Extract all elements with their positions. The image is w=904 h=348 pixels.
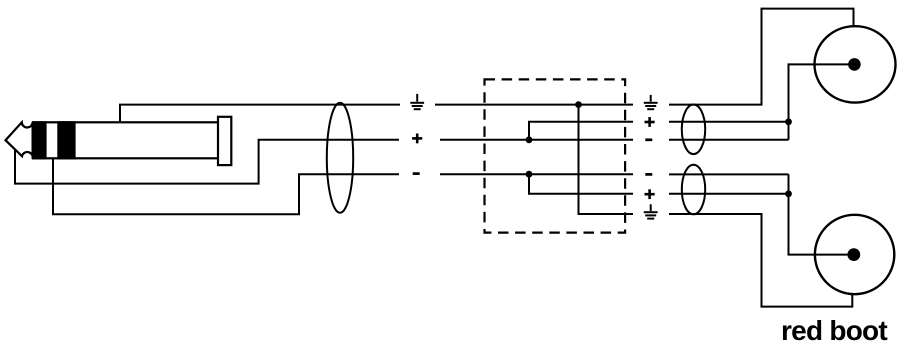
junction box (dashed) bbox=[485, 79, 626, 232]
plus symbol at RCA1 plus lead bbox=[645, 117, 655, 127]
junction dot: tip to RCA1 plus bbox=[526, 136, 533, 143]
wire: tip + into junction box (continues to RCA1 minus lead) bbox=[440, 139, 633, 141]
cable sheath ellipse (RCA2 lead) bbox=[682, 165, 705, 215]
wire: RCA1 plus lead to center pin node bbox=[669, 121, 789, 123]
wire: ground bus into junction box bbox=[435, 104, 633, 106]
junction dot: RCA1 plus node bbox=[785, 118, 792, 125]
wire: ground to RCA2 shell under the bottom bbox=[669, 214, 852, 307]
RCA connector 1 center pin dot bbox=[848, 58, 861, 71]
junction dot: ring to RCA2 plus bbox=[526, 171, 533, 178]
wire: RCA2 plus lead to center pin node bbox=[669, 193, 789, 195]
wire: ground to RCA1 shell over the top bbox=[669, 9, 854, 105]
cable sheath ellipse (main cable) bbox=[327, 103, 353, 213]
RCA connector 1 shell (circle) bbox=[815, 26, 896, 102]
cable sheath ellipse (RCA1 lead) bbox=[682, 105, 705, 155]
wire: ring (-) from jack barrel down, under jack, right, up and right bbox=[53, 150, 399, 214]
wire: RCA1 center pin connection bbox=[789, 64, 851, 139]
label: red boot bbox=[781, 315, 887, 347]
RCA connector 2 shell (circle) bbox=[815, 215, 894, 294]
jack insulator band 1 bbox=[33, 121, 47, 159]
RCA connector 2 center pin dot bbox=[847, 248, 860, 261]
plus symbol at jack tip wire bbox=[412, 134, 422, 144]
wire: RCA1 minus lead to center pin node bbox=[669, 139, 789, 141]
junction dot: ground split bbox=[575, 101, 582, 108]
plus symbol at RCA2 plus lead bbox=[645, 189, 655, 199]
wire: RCA2 center pin connection bbox=[789, 174, 851, 254]
ground symbol at RCA2 lead bbox=[644, 204, 658, 218]
jack plug J1 barrel (sleeve) bbox=[33, 122, 219, 158]
ground symbol at jack sleeve wire bbox=[410, 94, 424, 109]
minus symbol at RCA2 minus lead bbox=[645, 173, 652, 176]
minus symbol at RCA1 minus lead bbox=[645, 138, 652, 141]
jack body cap bbox=[218, 117, 231, 165]
minus symbol at jack ring wire bbox=[413, 172, 420, 175]
wire: RCA2 minus lead to center pin node bbox=[669, 173, 789, 175]
jack insulator band 2 bbox=[57, 121, 75, 159]
ground symbol at RCA1 lead bbox=[644, 95, 658, 109]
wire: jog down to RCA2 plus lead bbox=[529, 174, 633, 194]
junction dot: RCA2 plus node bbox=[785, 190, 792, 197]
wire: tip (+) from jack tip down, under jack, right, up and right bbox=[15, 140, 399, 184]
jack tip bbox=[6, 122, 33, 159]
wire: sleeve ground from jack barrel up and right bbox=[120, 105, 400, 123]
wire: ring - into junction box (continues to RCA2 minus lead) bbox=[440, 173, 633, 175]
wire: jog up to RCA1 plus lead bbox=[529, 122, 633, 140]
wire: ground down to RCA2 group bbox=[579, 105, 634, 214]
